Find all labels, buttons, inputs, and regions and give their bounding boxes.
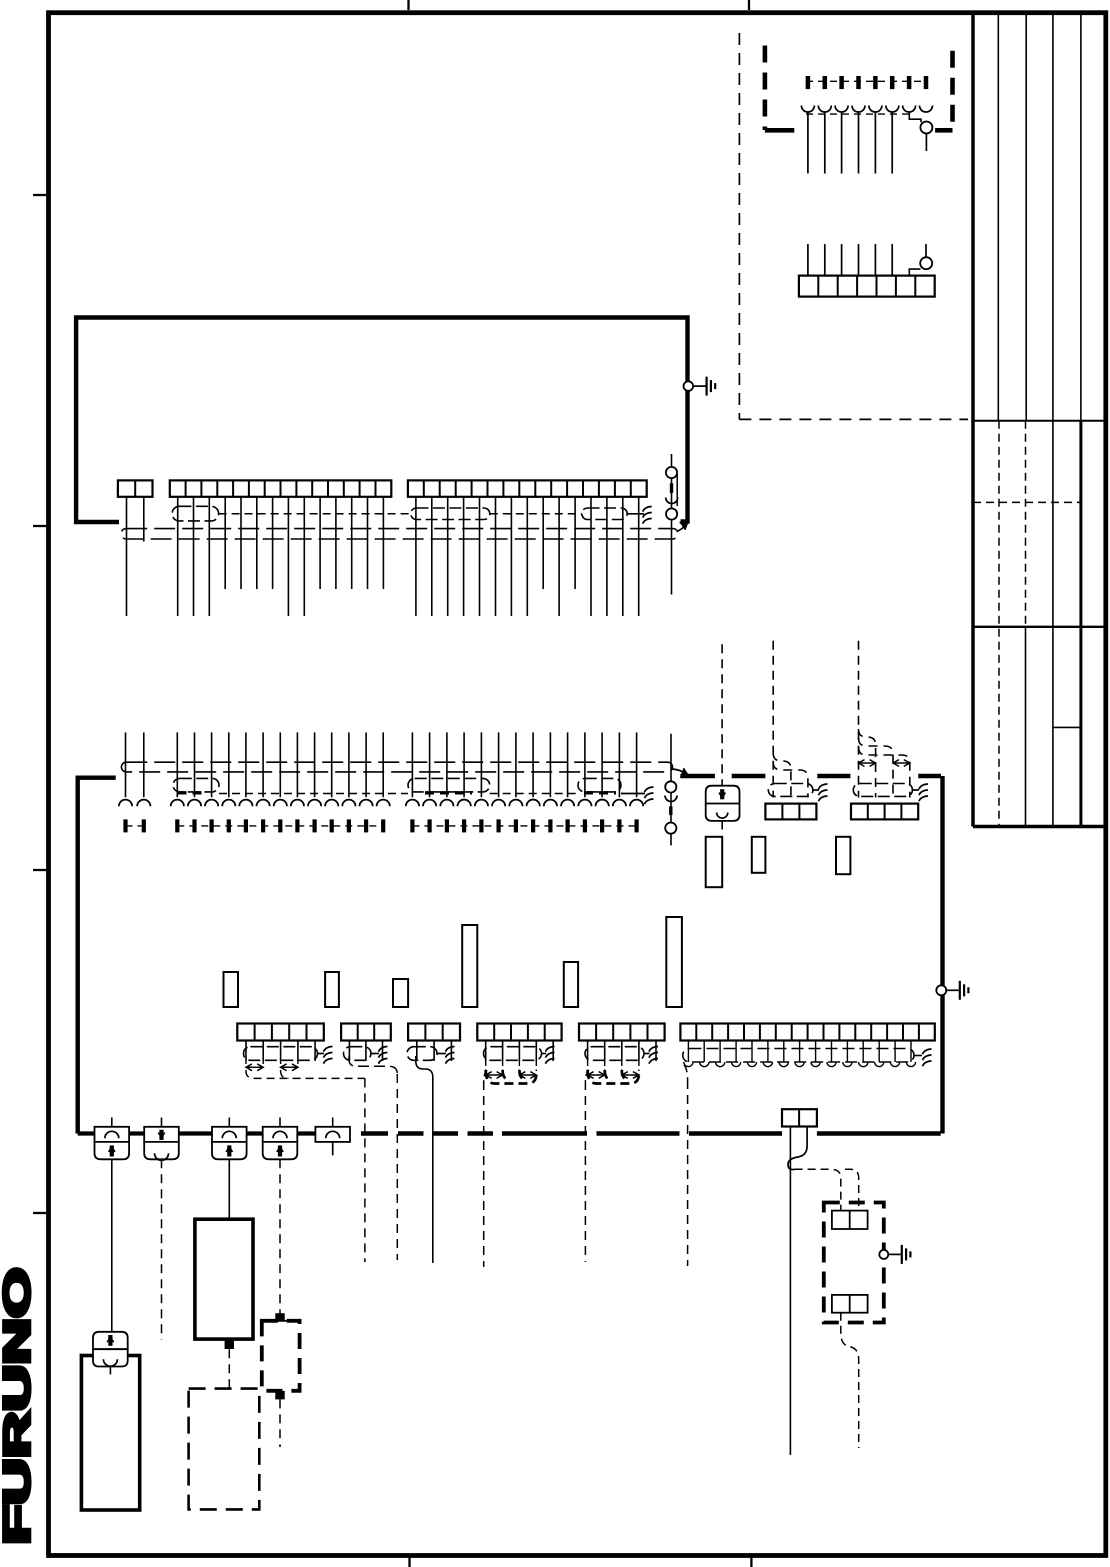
shield drain J6 xyxy=(371,1046,388,1063)
wire box2 to box3 dashed xyxy=(228,1349,230,1388)
title block row line 2 xyxy=(973,626,1106,628)
wire J11 branch dashed xyxy=(795,1169,859,1210)
processor unit chassis ground xyxy=(684,377,716,396)
display unit socket row xyxy=(119,800,643,807)
connector strip J8 xyxy=(477,1024,561,1041)
twisted pair tails J9 xyxy=(588,1061,639,1071)
twisted pair loop J9 xyxy=(588,1070,639,1084)
power cable dashed from above 1 xyxy=(721,644,723,785)
trim mark bottom right xyxy=(750,1555,752,1567)
external option box 4 bold dashed xyxy=(262,1321,300,1391)
twisted pair arrows J8a xyxy=(486,1072,503,1079)
cable shield oval J5 xyxy=(244,1047,318,1061)
wire below box 4 dashed xyxy=(279,1399,281,1447)
external unit boundary dashed vertical xyxy=(738,33,740,419)
trim mark left 3 xyxy=(33,869,48,871)
drop wire dashed 5 xyxy=(684,1065,688,1266)
terminal strip J2 xyxy=(799,276,935,297)
cable shield oval J4 xyxy=(853,784,912,797)
option box 4 top pin xyxy=(275,1313,284,1321)
pcb label box 7 xyxy=(462,925,477,1007)
display unit outline left xyxy=(78,778,116,1134)
display unit outline bottom dashed xyxy=(361,1131,941,1135)
display unit outline right xyxy=(940,776,944,1134)
shield drain J7 xyxy=(437,1046,455,1063)
connector strip J9 xyxy=(579,1024,665,1041)
connector housing bracket right xyxy=(935,51,952,131)
cable W2 conductors xyxy=(808,244,926,277)
twisted pair arrows 3a xyxy=(859,760,876,767)
trim mark left 4 xyxy=(33,1212,48,1214)
terminal strip TB2 xyxy=(170,480,391,496)
twisted pair arrows J5b xyxy=(281,1064,298,1071)
device connector on box 1 xyxy=(93,1332,128,1375)
twisted pair arrows 3b xyxy=(893,760,910,767)
cable shield oval J10 xyxy=(683,1049,914,1063)
title block bottom border xyxy=(973,825,1106,829)
twisted pair arrows J9b xyxy=(622,1072,639,1079)
drop wire dashed 3 xyxy=(484,1070,487,1267)
pcb label box 3 xyxy=(836,837,850,874)
twisted pair arrows J8b xyxy=(519,1072,536,1079)
connector pair CN4 xyxy=(263,1118,298,1160)
connector J5 wire stubs xyxy=(246,1041,315,1062)
connector strip J3 xyxy=(765,804,816,820)
shield drain J4 xyxy=(912,784,928,801)
wire J11 branch boot xyxy=(788,1127,807,1170)
connector J7 wire stubs xyxy=(417,1041,452,1062)
connector J8 wire stubs xyxy=(486,1041,554,1062)
wire J11 main xyxy=(789,1127,791,1456)
shield link wire dashed (lower) xyxy=(219,793,645,795)
shield drain J8 xyxy=(542,1046,555,1063)
device box 2 bottom pin xyxy=(225,1340,234,1349)
connector J10 wire stubs xyxy=(684,1041,916,1067)
cable shield oval J6 xyxy=(344,1047,372,1061)
connector pair CN1 xyxy=(95,1118,130,1160)
remote unit chassis ground xyxy=(879,1245,910,1264)
drop wire dashed 4 xyxy=(585,1070,589,1262)
cable shield oval J7 xyxy=(407,1047,437,1061)
jack J1 case ground contact xyxy=(920,122,932,134)
connector strip J10 xyxy=(680,1024,934,1041)
remote connector top xyxy=(832,1211,868,1229)
cable W1 conductors xyxy=(808,112,892,174)
remote unit tail wire dashed xyxy=(841,1313,859,1448)
cable shield oval B xyxy=(411,508,490,520)
shield bond bold dash B xyxy=(425,791,472,794)
connector J9 wire stubs xyxy=(588,1041,656,1062)
shield drain to chassis (lower) xyxy=(645,787,654,804)
twisted pair arrows J9a xyxy=(588,1072,605,1079)
drop wire dashed 2 xyxy=(349,1057,397,1261)
drop wire solid xyxy=(416,1056,433,1263)
cable shield oval J9 xyxy=(585,1047,644,1061)
power connector tail wire xyxy=(721,821,723,830)
wire CN1 to external device xyxy=(111,1159,113,1332)
terminal strip TB3 wires xyxy=(416,497,639,616)
terminal strip TB3 xyxy=(408,480,647,496)
cable shield oval J3 xyxy=(768,784,813,797)
signal cable dashed from above 2 xyxy=(772,641,774,798)
connector J2 shield contact xyxy=(909,257,932,276)
pcb label box 6 xyxy=(393,979,408,1007)
signal cable dashed from above 3 xyxy=(858,641,860,798)
terminal strip TB2 wires xyxy=(178,497,384,616)
power connector module xyxy=(706,786,740,821)
twisted pair tails J8 xyxy=(486,1061,537,1071)
pcb label box 9 xyxy=(666,917,682,1007)
remote unit box bold dashed xyxy=(824,1203,884,1323)
connector strip J7 xyxy=(408,1024,460,1041)
shield bond bold dash C xyxy=(584,791,616,794)
external unit boundary dashed horizontal xyxy=(739,418,968,420)
signal cable fan-out 2 xyxy=(773,753,808,798)
shield bond bold dash A xyxy=(178,791,206,794)
trim mark left 2 xyxy=(33,525,48,527)
title block row line 1 xyxy=(973,420,1106,422)
title block column line 4 lower thick xyxy=(1079,421,1082,827)
trim mark top left xyxy=(407,0,409,10)
title block column line 1 lower dashed xyxy=(998,421,1000,827)
twisted pair loop J8 xyxy=(486,1070,537,1084)
wire CN4 dashed xyxy=(279,1159,281,1314)
connector strip J5 xyxy=(237,1024,323,1041)
title block left border xyxy=(971,12,975,827)
shield link wire dashed xyxy=(219,513,644,515)
processor unit outline xyxy=(76,318,687,523)
shield drain J9 xyxy=(644,1046,658,1063)
shield stadium arrow to frame xyxy=(678,522,688,531)
display unit outline bottom solid xyxy=(78,1131,316,1135)
pcb label box 4 xyxy=(224,972,239,1007)
connector strip J6 xyxy=(341,1024,391,1041)
trim mark left 1 xyxy=(33,194,48,196)
external device box 2 xyxy=(195,1219,253,1339)
overall cable shield stadium (lower) xyxy=(121,762,672,772)
display unit outline top dashed xyxy=(680,774,941,778)
plug P1 pin row xyxy=(806,76,928,89)
cable shield oval C lower xyxy=(578,778,621,792)
shield drain J3 xyxy=(813,784,828,801)
title block column line 4 upper xyxy=(1080,13,1082,421)
jack J1 socket row xyxy=(801,106,932,115)
pcb label box 8 xyxy=(564,962,578,1007)
drop wire route J5 xyxy=(246,1070,365,1078)
trim mark bottom left xyxy=(408,1555,410,1567)
external option box 3 dashed xyxy=(189,1389,260,1510)
ground wire inline connector (lower) xyxy=(665,734,677,846)
FURUNO logo xyxy=(0,1268,38,1545)
connector J11 xyxy=(782,1109,817,1126)
ground wire inline connector (top) xyxy=(666,454,678,595)
connector strip J4 xyxy=(851,804,918,820)
wire CN3 to device box xyxy=(228,1159,230,1219)
overall cable shield stadium xyxy=(121,529,678,539)
twisted pair arrows J5a xyxy=(246,1064,263,1071)
cable shield oval B lower xyxy=(408,778,490,792)
svg-text:FURUNO: FURUNO xyxy=(0,1268,38,1545)
connector CN5 xyxy=(315,1118,350,1156)
external device box 1 xyxy=(81,1356,139,1511)
trim mark top right xyxy=(748,0,750,10)
connector J6 wire stubs xyxy=(349,1041,382,1062)
pcb label box 1 xyxy=(706,837,723,887)
interconnection cable conductors xyxy=(126,732,637,797)
title block row line 3 short xyxy=(1053,726,1081,728)
wire CN2 dashed xyxy=(161,1159,163,1339)
title block column line 3 xyxy=(1052,13,1054,827)
connector pair CN3 xyxy=(212,1118,247,1160)
shield stadium arrow to display unit xyxy=(673,768,689,777)
terminal strip TB1 wires xyxy=(127,497,144,616)
cable shield oval A lower xyxy=(173,778,219,792)
connector pair CN2 xyxy=(144,1118,179,1161)
title block column line 1 upper xyxy=(997,13,999,421)
title block column line 2 upper xyxy=(1025,13,1027,421)
cable shield oval A xyxy=(172,506,219,521)
cable shield oval J8 xyxy=(484,1047,542,1061)
jack J1 case ground wire xyxy=(909,112,926,152)
shield drain J10 xyxy=(914,1049,932,1066)
remote connector bottom xyxy=(832,1295,868,1313)
shield drain to chassis xyxy=(643,506,652,523)
shield drain J5 xyxy=(318,1046,333,1063)
pcb label box 2 xyxy=(752,837,766,873)
signal cable fan-out 3 xyxy=(859,729,910,798)
twisted pair tails J5 xyxy=(246,1061,298,1064)
connector housing bracket left xyxy=(765,46,794,131)
display unit plug pin row xyxy=(126,819,637,832)
terminal strip TB1 xyxy=(118,480,153,496)
drop wire dashed 1 xyxy=(364,1078,366,1262)
cable shield oval C xyxy=(582,508,627,520)
pcb label box 5 xyxy=(325,972,339,1007)
display unit chassis ground xyxy=(936,981,968,1000)
title block row line dashed xyxy=(973,501,1081,503)
option box 4 bottom pin xyxy=(275,1391,284,1400)
title block column line 2 lower dashed xyxy=(1025,421,1027,827)
